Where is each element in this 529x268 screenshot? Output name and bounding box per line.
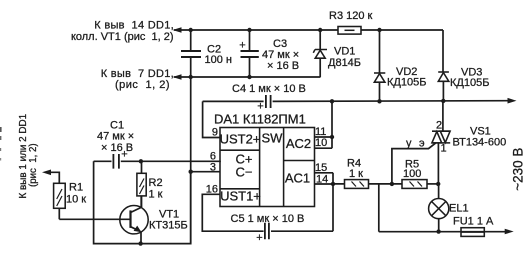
svg-text:DA1 К1182ПМ1: DA1 К1182ПМ1	[214, 112, 306, 127]
junction VD2-midrail	[377, 99, 381, 103]
svg-text:R1: R1	[69, 182, 83, 194]
resistor R1	[42, 170, 86, 220]
node rail1 to DD1 pin14 arrow	[173, 27, 182, 33]
svg-text:(рис 1, 2): (рис 1, 2)	[28, 143, 39, 187]
wire pin16 down to C5	[202, 194, 333, 231]
junction C2-rail2	[189, 75, 193, 79]
resistor R4	[333, 158, 402, 189]
wire drop to bottom rail	[378, 184, 380, 232]
wire rail2 (к выв 7 DD1)	[174, 76, 321, 78]
svg-text:C4 1 мк × 10 В: C4 1 мк × 10 В	[232, 83, 306, 95]
svg-text:ВТ134-600: ВТ134-600	[453, 137, 507, 149]
wire pin3	[191, 171, 220, 173]
junction pin14-R4-C5	[331, 182, 335, 186]
capacitor C4	[232, 83, 306, 113]
junction emitter	[138, 241, 142, 245]
svg-text:14: 14	[316, 174, 328, 186]
junction C3-rail2	[247, 75, 251, 79]
svg-text:~230 В: ~230 В	[511, 148, 526, 191]
svg-text:47 мк ×: 47 мк ×	[97, 131, 134, 143]
svg-text:× 16 В: × 16 В	[101, 142, 133, 154]
svg-text:100 н: 100 н	[205, 54, 232, 66]
node mains bottom arrow	[505, 229, 514, 235]
svg-text:2: 2	[436, 120, 442, 132]
node mains top arrow	[508, 98, 517, 104]
junction C4 midrail	[330, 99, 334, 103]
diode VD2	[374, 30, 426, 101]
junction lamp-bottom rail	[436, 229, 440, 233]
svg-text:у: у	[406, 138, 412, 150]
svg-text:9: 9	[212, 127, 218, 139]
wire rail1 right corner down	[442, 30, 444, 72]
svg-text:колл. VT1 (рис 1, 2): колл. VT1 (рис 1, 2)	[71, 31, 174, 43]
wire C4 left leg to pin9	[203, 101, 220, 137]
svg-text:1: 1	[441, 143, 447, 155]
svg-text:R3 120 к: R3 120 к	[329, 10, 373, 22]
svg-text:VD1: VD1	[334, 46, 355, 58]
junction gate branch	[390, 182, 394, 186]
svg-text:1 к: 1 к	[149, 189, 163, 201]
transistor VT1 КТ315Б	[59, 196, 187, 244]
junction R5-VS1 column	[436, 182, 440, 186]
zener diode VD1	[313, 30, 361, 77]
svg-text:3: 3	[210, 162, 216, 174]
svg-text:+: +	[256, 232, 262, 244]
junction VD3-VS1-midrail	[441, 99, 445, 103]
svg-text:100: 100	[403, 168, 421, 180]
svg-text:(рис 1, 2): (рис 1, 2)	[115, 79, 170, 91]
node rail2 to DD1 pin7 arrow	[173, 74, 182, 80]
capacitor C3	[239, 30, 299, 77]
junction pin3-common	[189, 170, 193, 174]
svg-text:C5 1 мк × 10 В: C5 1 мк × 10 В	[231, 213, 305, 225]
svg-text:C−: C−	[236, 165, 253, 180]
wire pins 15,14 leg	[315, 173, 334, 231]
capacitor C1	[94, 120, 220, 169]
svg-text:э: э	[419, 138, 425, 150]
junction VD2-rail1	[377, 28, 381, 32]
scan specks at left edge	[0, 127, 2, 132]
wire emitter bottom loop	[94, 161, 191, 243]
svg-text:+: +	[239, 40, 245, 52]
capacitor C2	[181, 30, 232, 244]
resistor R2	[137, 161, 163, 207]
junction VD1-rail1	[318, 28, 322, 32]
svg-text:UST2+: UST2+	[220, 132, 261, 147]
svg-text:10 к: 10 к	[66, 194, 86, 206]
resistor R3	[329, 10, 373, 34]
fuse FU1	[453, 216, 494, 237]
junction C3-rail1	[247, 28, 251, 32]
wire gate branch	[392, 143, 436, 184]
svg-text:1 к: 1 к	[349, 168, 363, 180]
svg-text:EL1: EL1	[449, 203, 469, 215]
svg-text:КД105Б: КД105Б	[450, 77, 489, 89]
svg-text:× 16 В: × 16 В	[267, 60, 299, 72]
svg-text:Д814Б: Д814Б	[328, 57, 361, 69]
IC DA1 К1182ПМ1	[214, 112, 315, 207]
capacitor C5	[231, 213, 305, 244]
junction pin11	[330, 135, 334, 139]
svg-text:КД105Б: КД105Б	[387, 77, 426, 89]
svg-text:10: 10	[315, 137, 327, 149]
diode VD3	[438, 67, 489, 101]
lamp EL1	[429, 184, 469, 232]
svg-text:КТ315Б: КТ315Б	[149, 220, 188, 232]
junction C1-R2	[139, 159, 143, 163]
svg-text:К выв 14 DD1,: К выв 14 DD1,	[94, 20, 174, 32]
wire C4 right leg to pins 11,10	[315, 101, 333, 148]
svg-text:15: 15	[315, 162, 327, 174]
wire rail1 (к выв 14 DD1)	[174, 29, 443, 31]
svg-text:SW: SW	[262, 131, 284, 146]
svg-text:R2: R2	[149, 177, 163, 189]
triac VS1	[432, 101, 506, 184]
svg-text:AC1: AC1	[285, 171, 310, 186]
wire bottom rail	[379, 231, 505, 233]
svg-text:UST1+: UST1+	[220, 189, 261, 204]
resistor R5	[402, 159, 438, 189]
svg-text:16: 16	[206, 184, 218, 196]
junction C2-rail1	[189, 28, 193, 32]
wire midrail	[203, 100, 508, 103]
svg-text:FU1 1 А: FU1 1 А	[453, 216, 494, 228]
svg-text:AC2: AC2	[286, 136, 311, 151]
